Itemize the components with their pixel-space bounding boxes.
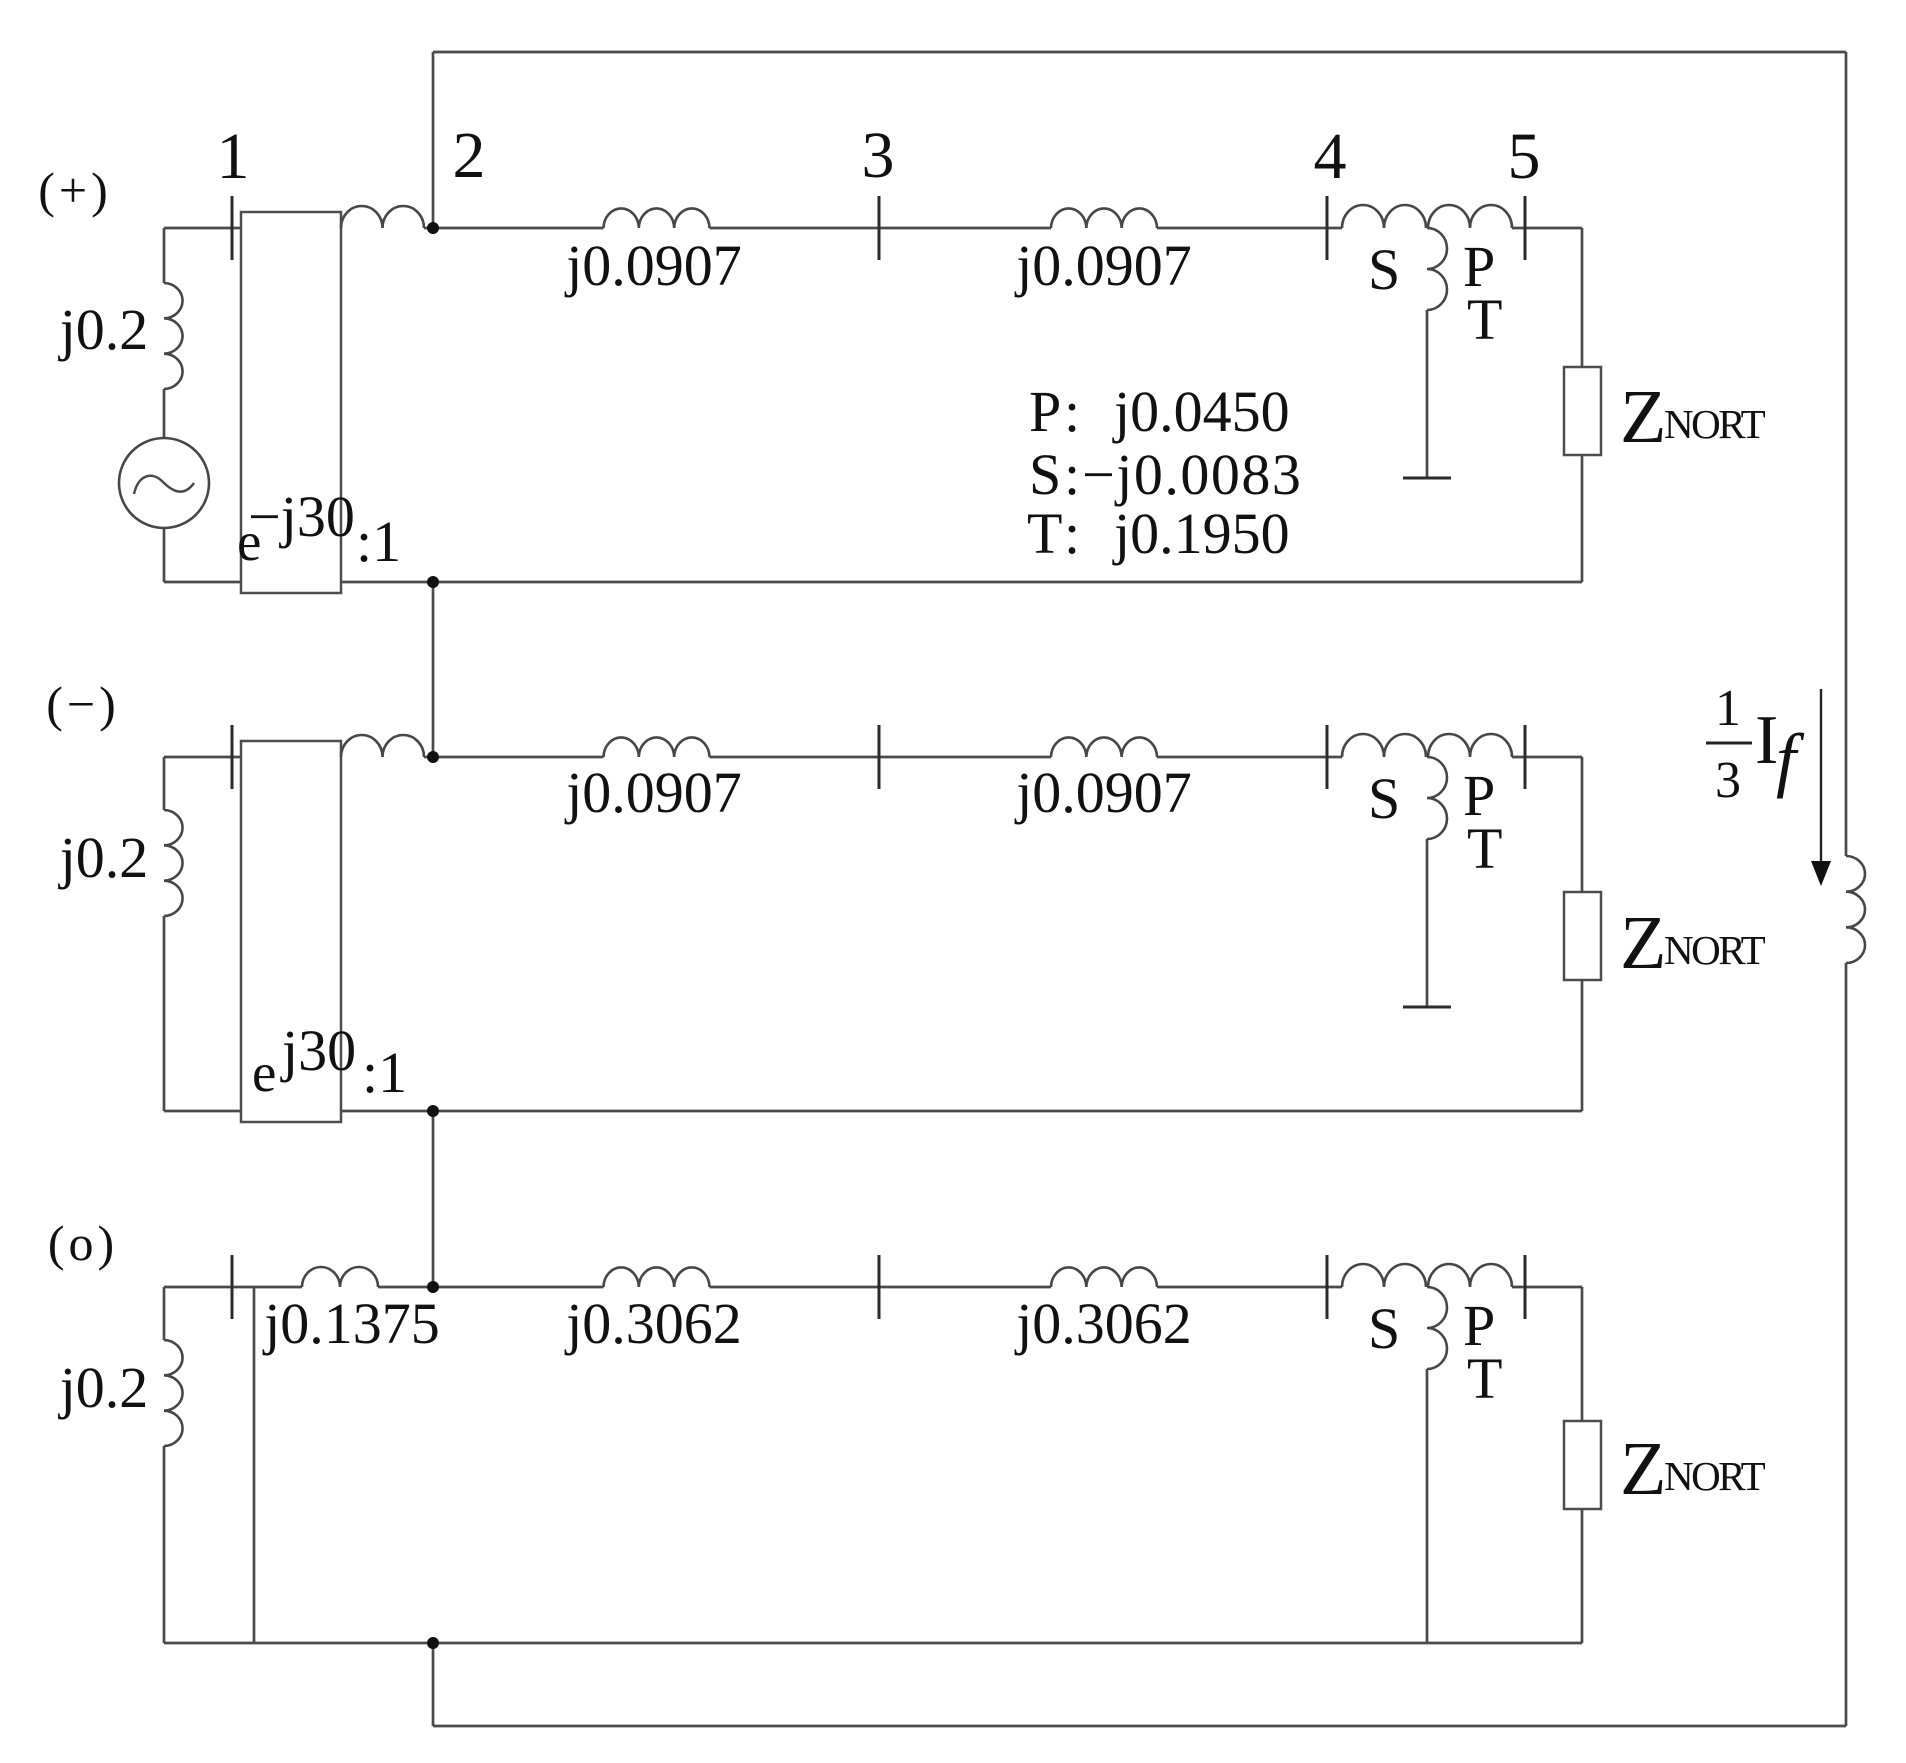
svg-text:j0.2: j0.2 bbox=[58, 825, 149, 890]
svg-text:j0.0907: j0.0907 bbox=[564, 233, 742, 298]
svg-text:S: S bbox=[1368, 237, 1400, 302]
inductor j0.3062 line 3-4 (zero seq) bbox=[1051, 1267, 1157, 1287]
node 3 tick (zero seq) bbox=[878, 1255, 881, 1319]
svg-text:Z: Z bbox=[1620, 1427, 1666, 1511]
fault current arrow 1/3 If bbox=[1811, 689, 1831, 886]
wire negative-seq left loop vertical bbox=[163, 757, 166, 1111]
wire negative-seq bottom return bbox=[164, 1110, 1582, 1113]
svg-text:Z: Z bbox=[1620, 901, 1666, 985]
inductor j0.0907 line 2-3 (negative seq) bbox=[604, 737, 710, 757]
node 3 tick (positive seq) bbox=[878, 196, 881, 260]
svg-text:j0.0907: j0.0907 bbox=[1014, 233, 1192, 298]
wire outer right lower (neutral coil to outer bottom) bbox=[1845, 963, 1848, 1726]
svg-text:NORT: NORT bbox=[1664, 401, 1766, 447]
inductor j0.0907 line 3-4 (negative seq) bbox=[1051, 737, 1157, 757]
inductor j0.0907 line 3-4 (positive seq) bbox=[1051, 208, 1157, 228]
inductor T winding curl (positive seq) bbox=[1427, 228, 1447, 310]
svg-text:T: T bbox=[1467, 287, 1502, 352]
svg-text:−j30: −j30 bbox=[248, 484, 355, 549]
wire spine zero-seq to outer bottom bbox=[432, 1643, 435, 1726]
svg-text:j30: j30 bbox=[280, 1018, 356, 1083]
svg-text:S: S bbox=[1368, 1296, 1400, 1361]
inductor P winding (positive seq) bbox=[1428, 205, 1512, 228]
wire zero-seq bottom return bbox=[164, 1642, 1582, 1645]
svg-text:Z: Z bbox=[1620, 375, 1666, 459]
node 5 tick (zero seq) bbox=[1524, 1255, 1527, 1319]
wire zero-seq shunt vertical at x254 bbox=[253, 1287, 256, 1643]
inductor P winding (negative seq) bbox=[1428, 734, 1512, 757]
node 1 tick (positive seq) bbox=[231, 196, 234, 260]
node 4 tick (zero seq) bbox=[1326, 1255, 1329, 1319]
svg-text:T: T bbox=[1027, 501, 1062, 566]
inductor j0.1375 shunt coil (zero seq) bbox=[302, 1267, 378, 1287]
wire spine node2 drop (outer top to positive-seq node 2) bbox=[432, 52, 435, 228]
svg-text:j0.1375: j0.1375 bbox=[262, 1291, 440, 1356]
svg-text:(o): (o) bbox=[48, 1215, 118, 1271]
svg-text:NORT: NORT bbox=[1664, 1453, 1766, 1499]
svg-text:j0.3062: j0.3062 bbox=[1014, 1291, 1192, 1356]
wire zero-seq top bus bbox=[164, 1286, 1582, 1289]
inductor j0.2 source reactance (positive seq) bbox=[164, 283, 183, 389]
inductor j0.0907 line 2-3 (positive seq) bbox=[604, 208, 710, 228]
node 3 tick (negative seq) bbox=[878, 725, 881, 789]
svg-text::1: :1 bbox=[356, 509, 401, 574]
svg-text:S: S bbox=[1368, 766, 1400, 831]
node 4 tick (positive seq) bbox=[1326, 196, 1329, 260]
wire outer right upper (fault bus down to neutral coil) bbox=[1845, 52, 1848, 856]
svg-text:j0.0907: j0.0907 bbox=[564, 760, 742, 825]
T winding end bar (positive seq) bbox=[1403, 477, 1451, 480]
svg-text:j0.0907: j0.0907 bbox=[1014, 760, 1192, 825]
wire negative-seq T-winding tail bbox=[1426, 839, 1429, 1007]
svg-text:I: I bbox=[1755, 702, 1778, 779]
inductor j0.2 source reactance (negative seq) bbox=[164, 810, 183, 916]
wire negative-seq top bus bbox=[164, 756, 1582, 759]
wire positive-seq left loop vertical bbox=[163, 228, 166, 582]
wire zero-seq T-winding tail bbox=[1426, 1369, 1429, 1643]
inductor T winding curl (negative seq) bbox=[1427, 757, 1447, 839]
svg-text:e: e bbox=[252, 1042, 276, 1103]
wire zero-seq Znort branch vertical bbox=[1581, 1287, 1584, 1643]
svg-text:j0.1950: j0.1950 bbox=[1112, 501, 1290, 566]
svg-text::1: :1 bbox=[362, 1040, 407, 1105]
svg-text:j0.0450: j0.0450 bbox=[1112, 379, 1290, 444]
svg-text:j0.2: j0.2 bbox=[58, 1355, 149, 1420]
T winding end bar (negative seq) bbox=[1403, 1006, 1451, 1009]
junction dot negative-seq return bbox=[427, 1105, 439, 1117]
inductor L2 leakage coil after U2 (negative seq) bbox=[341, 735, 424, 757]
transformer U1 phase shifter e^-j30:1 (positive seq) bbox=[241, 212, 341, 593]
junction dot node 2 (positive seq) bbox=[427, 222, 439, 234]
node 5 tick (negative seq) bbox=[1524, 725, 1527, 789]
inductor S winding (zero seq) bbox=[1342, 1264, 1426, 1287]
inductor j0.2 source reactance (zero seq) bbox=[164, 1340, 183, 1446]
svg-text:j0.3062: j0.3062 bbox=[564, 1291, 742, 1356]
svg-text:3: 3 bbox=[1715, 752, 1741, 809]
resistor Z_NORT (zero seq) bbox=[1564, 1421, 1601, 1509]
svg-text:(+): (+) bbox=[38, 162, 112, 218]
junction dot positive-seq return bbox=[427, 576, 439, 588]
svg-text::: : bbox=[1064, 501, 1080, 566]
node 4 tick (negative seq) bbox=[1326, 725, 1329, 789]
wire positive-seq bottom return bbox=[164, 581, 1582, 584]
svg-text:5: 5 bbox=[1508, 120, 1541, 193]
svg-text:NORT: NORT bbox=[1664, 927, 1766, 973]
inductor S winding (negative seq) bbox=[1342, 734, 1426, 757]
junction dot node 2 (negative seq) bbox=[427, 751, 439, 763]
inductor T winding curl (zero seq) bbox=[1427, 1287, 1447, 1369]
svg-text:j0.2: j0.2 bbox=[58, 297, 149, 362]
wire positive-seq Znort branch vertical bbox=[1581, 228, 1584, 582]
svg-text::: : bbox=[1064, 379, 1080, 444]
resistor Z_NORT (negative seq) bbox=[1564, 892, 1601, 980]
svg-text:f: f bbox=[1776, 719, 1805, 799]
junction dot zero-seq return bbox=[427, 1637, 439, 1649]
node 1 tick (zero seq) bbox=[231, 1255, 234, 1319]
svg-text:T: T bbox=[1467, 1346, 1502, 1411]
svg-text:S: S bbox=[1029, 442, 1061, 507]
wire outer bottom (zero-seq return to fault bus) bbox=[433, 1725, 1846, 1728]
wire zero-seq left loop vertical bbox=[163, 1287, 166, 1643]
fraction bar of 1/3 bbox=[1706, 742, 1752, 745]
svg-text::: : bbox=[1064, 442, 1080, 507]
ac source V1 circle (positive seq) bbox=[119, 438, 209, 528]
wire negative-seq Znort branch vertical bbox=[1581, 757, 1584, 1111]
svg-text:1: 1 bbox=[1715, 680, 1741, 737]
svg-text:P: P bbox=[1029, 379, 1061, 444]
inductor L1 leakage coil after U1 (positive seq) bbox=[341, 206, 424, 228]
wire outer top (node 2 to fault bus) bbox=[433, 51, 1846, 54]
svg-text:−j0.0083: −j0.0083 bbox=[1082, 442, 1302, 507]
inductor P winding (zero seq) bbox=[1428, 1264, 1512, 1287]
inductor j0.3062 line 2-3 (zero seq) bbox=[604, 1267, 710, 1287]
svg-text:4: 4 bbox=[1314, 120, 1347, 193]
wire spine positive to negative sequence link bbox=[432, 582, 435, 757]
resistor Z_NORT (positive seq) bbox=[1564, 367, 1601, 455]
wire positive-seq top bus (node 1 to node 5 region) bbox=[164, 227, 1582, 230]
junction dot node 2 (zero seq) bbox=[427, 1281, 439, 1293]
svg-text:3: 3 bbox=[862, 119, 895, 192]
svg-text:T: T bbox=[1467, 816, 1502, 881]
node 1 tick (negative seq) bbox=[231, 725, 234, 789]
svg-text:(−): (−) bbox=[46, 676, 120, 732]
inductor neutral grounding coil on fault-current return bbox=[1846, 856, 1865, 963]
transformer U2 phase shifter e^j30:1 (negative seq) bbox=[241, 741, 341, 1122]
ac source V1 sine glyph bbox=[134, 476, 194, 494]
inductor S winding (positive seq) bbox=[1342, 205, 1426, 228]
wire spine negative to zero sequence link bbox=[432, 1111, 435, 1287]
wire positive-seq T-winding tail bbox=[1426, 310, 1429, 478]
node 5 tick (positive seq) bbox=[1524, 196, 1527, 260]
svg-text:2: 2 bbox=[453, 119, 486, 192]
svg-text:1: 1 bbox=[217, 120, 250, 193]
